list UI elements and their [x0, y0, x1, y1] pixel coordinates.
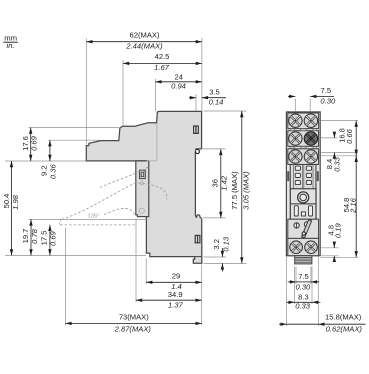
svg-text:1.37: 1.37	[168, 301, 184, 310]
svg-text:73(MAX): 73(MAX)	[119, 312, 149, 321]
svg-text:0.69: 0.69	[49, 230, 58, 246]
svg-text:0.36: 0.36	[49, 164, 58, 180]
svg-text:0.69: 0.69	[30, 135, 39, 151]
svg-text:3.05 (MAX): 3.05 (MAX)	[241, 171, 250, 210]
svg-text:7.5: 7.5	[298, 272, 309, 281]
svg-text:34.9: 34.9	[168, 290, 183, 299]
svg-text:1.98: 1.98	[11, 194, 20, 210]
svg-text:42.5: 42.5	[155, 52, 170, 61]
svg-text:135°: 135°	[88, 213, 100, 219]
svg-text:0.14: 0.14	[209, 97, 224, 106]
svg-text:36: 36	[210, 179, 219, 187]
svg-text:8.3: 8.3	[298, 292, 309, 301]
svg-text:17.5: 17.5	[39, 231, 48, 246]
svg-text:29: 29	[172, 271, 180, 280]
svg-text:15.8(MAX): 15.8(MAX)	[325, 313, 362, 322]
svg-text:2.87(MAX): 2.87(MAX)	[114, 325, 152, 334]
svg-text:0.19: 0.19	[334, 223, 343, 239]
svg-text:62(MAX): 62(MAX)	[130, 30, 160, 39]
svg-text:0.94: 0.94	[171, 81, 186, 90]
svg-text:0.33: 0.33	[333, 156, 342, 172]
svg-text:77.5 (MAX): 77.5 (MAX)	[230, 171, 239, 210]
svg-text:2.16: 2.16	[349, 197, 358, 214]
svg-text:in.: in.	[7, 41, 15, 50]
svg-text:0.30: 0.30	[320, 97, 336, 106]
svg-text:0.33: 0.33	[295, 302, 311, 311]
svg-text:3.2: 3.2	[212, 239, 221, 250]
svg-text:0.62(MAX): 0.62(MAX)	[326, 324, 363, 333]
svg-text:3.5: 3.5	[209, 88, 220, 97]
svg-text:9.2: 9.2	[40, 165, 49, 176]
svg-text:19.7: 19.7	[21, 229, 30, 244]
svg-text:0.66: 0.66	[345, 128, 354, 144]
svg-text:1.42: 1.42	[220, 175, 229, 191]
svg-text:24: 24	[174, 73, 182, 82]
svg-text:0.78: 0.78	[30, 228, 39, 244]
svg-text:50.4: 50.4	[2, 194, 11, 209]
svg-text:1.67: 1.67	[154, 63, 170, 72]
svg-text:0.13: 0.13	[222, 236, 231, 252]
svg-text:7.5: 7.5	[321, 86, 332, 95]
svg-text:0.30: 0.30	[296, 283, 312, 292]
svg-text:2.44(MAX): 2.44(MAX)	[125, 41, 163, 50]
